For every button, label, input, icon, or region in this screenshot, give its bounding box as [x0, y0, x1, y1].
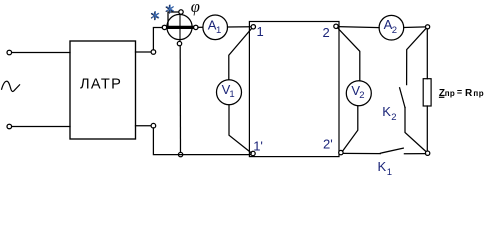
ammeter A2 body [379, 15, 404, 40]
node 2' [339, 150, 343, 154]
label Zпр = Rпр [439, 87, 484, 99]
svg-text:пр: пр [473, 89, 484, 98]
wire node 2 to V2 [338, 28, 360, 81]
ammeter A1 body [203, 15, 228, 40]
wire ЛАТР output top [136, 51, 152, 53]
svg-text:R: R [465, 88, 473, 99]
AC source symbol [2, 81, 20, 91]
junction top right [426, 25, 430, 29]
terminal ЛАТР output top [151, 50, 156, 55]
wire input bottom [12, 126, 71, 128]
wattmeter W body [167, 14, 192, 39]
switch K2 blade [400, 88, 405, 108]
asterisk mark top [166, 5, 173, 13]
wire wattmeter bottom coil down [179, 46, 181, 155]
node 1 [251, 25, 255, 29]
svg-text:=: = [457, 87, 462, 97]
svg-text:пр: пр [445, 89, 455, 98]
wattmeter current bar [164, 26, 197, 29]
wattmeter terminal bottom [177, 41, 181, 45]
junction on bottom rail [178, 152, 182, 156]
wattmeter terminal right [194, 25, 198, 29]
wire input top [12, 52, 71, 54]
svg-text:2': 2' [323, 137, 333, 152]
voltmeter V2 body [346, 81, 371, 106]
terminal ЛАТР output bottom [151, 123, 156, 128]
svg-text:1: 1 [257, 24, 264, 39]
svg-text:φ: φ [191, 0, 200, 16]
wire resistor to bottom junction [426, 106, 428, 151]
svg-text:2: 2 [391, 112, 396, 123]
resistor Rпр [423, 79, 431, 106]
wire A2 to right junction [404, 26, 426, 29]
wire A1 to node 1 [228, 26, 252, 28]
svg-text:1': 1' [253, 139, 263, 154]
node 1' [251, 151, 255, 155]
wire node 2' to switch K1 [343, 152, 380, 154]
svg-text:2: 2 [392, 25, 397, 36]
wire ЛАТР output bottom [136, 125, 152, 127]
wire wattmeter to A1 [198, 26, 203, 28]
terminal input bottom [7, 124, 12, 129]
wire node 2 to A2 [338, 27, 379, 28]
voltmeter V1 body [217, 80, 242, 105]
svg-text:2: 2 [359, 90, 364, 101]
wire top rail to wattmeter [153, 28, 162, 50]
svg-text:K: K [378, 159, 387, 174]
wire K2 to bottom junction [405, 108, 426, 152]
node 2 [334, 24, 338, 28]
wire wattmeter voltage-coil bracket [168, 12, 179, 26]
wattmeter terminal left [162, 25, 166, 29]
wire node 1 to V1 [229, 28, 252, 79]
junction bottom right [425, 151, 429, 155]
svg-text:1: 1 [387, 167, 392, 178]
asterisk mark left [152, 12, 159, 20]
svg-text:K: K [382, 104, 391, 119]
wattmeter terminal top [179, 10, 183, 14]
wattmeter vertical line [179, 12, 181, 44]
autotransformer ЛАТР box [70, 41, 136, 139]
terminal input top [7, 50, 12, 55]
wire V1 to node 1' [229, 105, 251, 153]
wire K1 to bottom junction [404, 153, 425, 155]
switch K1 blade [380, 148, 403, 153]
wire V2 to node 2' [343, 106, 358, 151]
wire bottom rail [153, 128, 250, 155]
wire junction to switch K2 [407, 28, 426, 84]
svg-text:1: 1 [216, 25, 221, 36]
quadripole box [249, 22, 339, 157]
svg-text:2: 2 [323, 25, 330, 40]
svg-text:ЛАТР: ЛАТР [80, 77, 122, 93]
svg-text:1: 1 [229, 89, 234, 100]
wire junction to resistor [426, 29, 428, 79]
